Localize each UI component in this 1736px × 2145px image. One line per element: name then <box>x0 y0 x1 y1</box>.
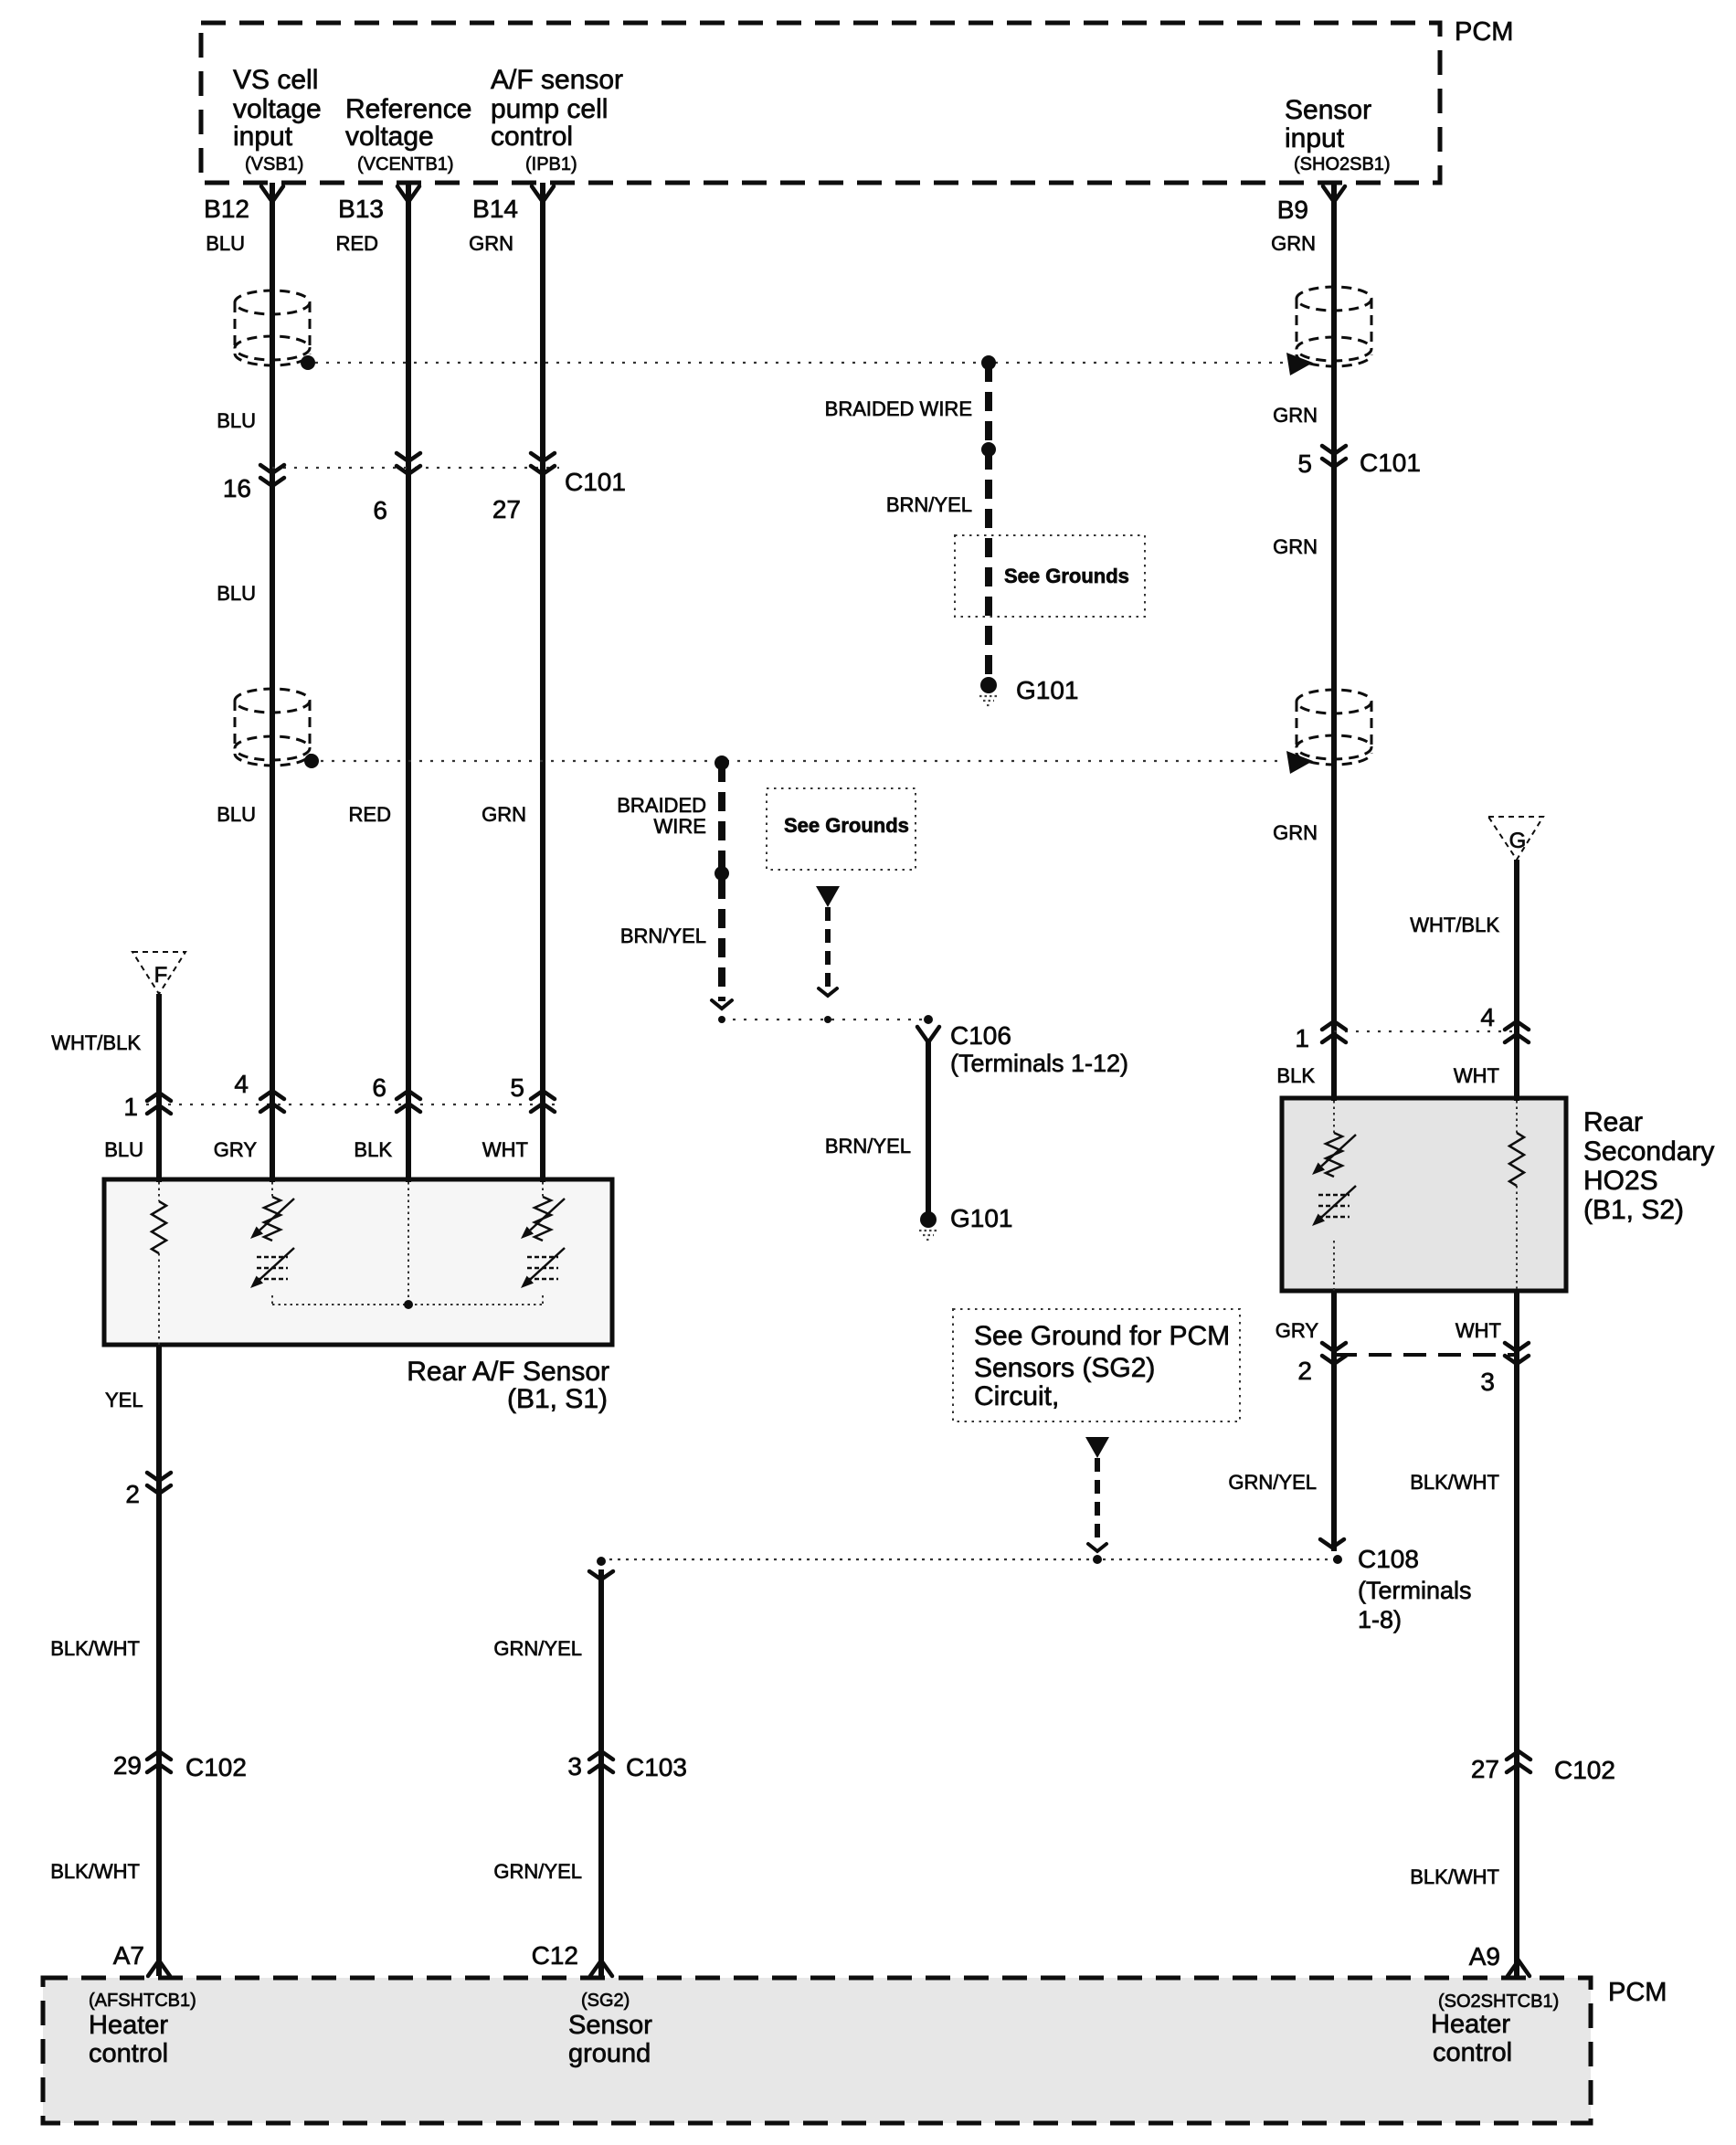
svg-text:voltage: voltage <box>345 122 434 152</box>
svg-text:GRN: GRN <box>1271 232 1316 255</box>
svg-text:4: 4 <box>1480 1003 1495 1031</box>
svg-text:pump cell: pump cell <box>491 94 608 124</box>
svg-text:(Terminals 1-12): (Terminals 1-12) <box>950 1050 1128 1077</box>
svg-text:C102: C102 <box>185 1753 247 1781</box>
svg-text:G101: G101 <box>1016 676 1079 704</box>
svg-text:GRN: GRN <box>1273 821 1318 844</box>
svg-text:(SG2): (SG2) <box>581 1991 630 2011</box>
svg-text:BLK/WHT: BLK/WHT <box>50 1860 140 1883</box>
svg-text:C108: C108 <box>1358 1545 1419 1573</box>
svg-text:input: input <box>1285 123 1345 153</box>
svg-text:B9: B9 <box>1277 195 1308 224</box>
svg-text:5: 5 <box>510 1073 524 1102</box>
svg-text:PCM: PCM <box>1455 17 1513 47</box>
svg-text:control: control <box>89 2039 168 2068</box>
svg-text:YEL: YEL <box>105 1389 143 1411</box>
svg-text:GRN/YEL: GRN/YEL <box>493 1637 582 1660</box>
svg-text:B13: B13 <box>338 195 384 223</box>
svg-text:BLK: BLK <box>1276 1064 1315 1087</box>
svg-text:(VSB1): (VSB1) <box>245 154 303 174</box>
svg-text:27: 27 <box>492 495 521 523</box>
svg-text:See Ground for PCM: See Ground for PCM <box>974 1321 1230 1351</box>
svg-text:C102: C102 <box>1554 1756 1615 1784</box>
svg-text:WHT: WHT <box>482 1138 528 1161</box>
svg-text:BLU: BLU <box>217 409 256 432</box>
svg-text:Sensor: Sensor <box>568 2011 652 2040</box>
svg-text:(IPB1): (IPB1) <box>525 154 577 174</box>
svg-text:BLK/WHT: BLK/WHT <box>1410 1471 1499 1494</box>
svg-text:See Grounds: See Grounds <box>784 814 909 837</box>
svg-text:PCM: PCM <box>1608 1978 1667 2007</box>
svg-text:1: 1 <box>123 1093 138 1121</box>
svg-text:BLK: BLK <box>354 1138 392 1161</box>
svg-text:BLU: BLU <box>104 1138 143 1161</box>
svg-text:B14: B14 <box>472 195 518 223</box>
svg-text:BLU: BLU <box>217 582 256 605</box>
svg-text:BLK/WHT: BLK/WHT <box>50 1637 140 1660</box>
svg-text:3: 3 <box>567 1752 582 1780</box>
svg-text:control: control <box>491 122 573 152</box>
svg-text:RED: RED <box>336 232 378 255</box>
svg-text:BRN/YEL: BRN/YEL <box>886 493 972 516</box>
svg-text:WHT: WHT <box>1455 1319 1501 1342</box>
svg-text:Sensors (SG2): Sensors (SG2) <box>974 1353 1155 1383</box>
svg-text:C101: C101 <box>1360 449 1421 477</box>
svg-text:ground: ground <box>568 2039 651 2068</box>
svg-text:control: control <box>1433 2038 1512 2067</box>
svg-text:BLU: BLU <box>206 232 245 255</box>
svg-text:VS cell: VS cell <box>233 65 318 95</box>
svg-text:C12: C12 <box>532 1941 578 1970</box>
svg-text:GRN: GRN <box>1273 535 1318 558</box>
svg-text:BRAIDED: BRAIDED <box>617 794 706 817</box>
svg-text:GRN/YEL: GRN/YEL <box>1228 1471 1317 1494</box>
svg-text:BLU: BLU <box>217 803 256 826</box>
svg-text:2: 2 <box>125 1480 140 1508</box>
svg-text:2: 2 <box>1297 1357 1312 1385</box>
svg-text:(Terminals: (Terminals <box>1358 1577 1472 1604</box>
svg-text:GRN: GRN <box>1273 404 1318 427</box>
svg-text:BRAIDED WIRE: BRAIDED WIRE <box>825 397 972 420</box>
svg-text:A7: A7 <box>113 1941 144 1970</box>
svg-text:WHT: WHT <box>1454 1064 1499 1087</box>
svg-text:Secondary: Secondary <box>1583 1136 1714 1167</box>
svg-text:Heater: Heater <box>89 2011 168 2040</box>
svg-text:BLK/WHT: BLK/WHT <box>1410 1865 1499 1888</box>
svg-text:1: 1 <box>1295 1024 1309 1052</box>
svg-text:C106: C106 <box>950 1021 1011 1050</box>
svg-text:WHT/BLK: WHT/BLK <box>1410 914 1499 936</box>
svg-text:BRN/YEL: BRN/YEL <box>825 1135 911 1157</box>
svg-text:(VCENTB1): (VCENTB1) <box>357 154 454 174</box>
svg-text:1-8): 1-8) <box>1358 1606 1402 1633</box>
svg-text:B12: B12 <box>204 195 249 223</box>
svg-text:G101: G101 <box>950 1204 1013 1232</box>
svg-text:3: 3 <box>1480 1368 1495 1396</box>
svg-text:WIRE: WIRE <box>654 815 706 838</box>
svg-text:See Grounds: See Grounds <box>1004 565 1129 587</box>
svg-text:Rear: Rear <box>1583 1107 1643 1137</box>
svg-text:F: F <box>154 963 168 988</box>
svg-text:HO2S: HO2S <box>1583 1166 1658 1196</box>
svg-text:voltage: voltage <box>233 94 322 124</box>
svg-text:Heater: Heater <box>1431 2010 1510 2039</box>
svg-text:6: 6 <box>372 1073 386 1102</box>
svg-text:G: G <box>1509 829 1527 853</box>
svg-text:Rear A/F Sensor: Rear A/F Sensor <box>407 1357 609 1387</box>
svg-text:GRN: GRN <box>469 232 513 255</box>
svg-text:(SHO2SB1): (SHO2SB1) <box>1294 154 1391 174</box>
svg-text:GRN: GRN <box>482 803 526 826</box>
svg-text:GRY: GRY <box>1276 1319 1319 1342</box>
svg-text:RED: RED <box>349 803 391 826</box>
svg-text:27: 27 <box>1471 1755 1499 1783</box>
svg-text:BRN/YEL: BRN/YEL <box>620 925 706 947</box>
svg-text:GRN/YEL: GRN/YEL <box>493 1860 582 1883</box>
svg-text:A/F sensor: A/F sensor <box>491 65 623 95</box>
svg-text:Circuit,: Circuit, <box>974 1381 1059 1411</box>
svg-text:A9: A9 <box>1469 1942 1500 1971</box>
svg-text:Sensor: Sensor <box>1285 95 1371 125</box>
svg-text:5: 5 <box>1297 449 1312 478</box>
svg-text:input: input <box>233 122 293 152</box>
svg-text:6: 6 <box>373 496 387 524</box>
svg-text:(AFSHTCB1): (AFSHTCB1) <box>89 1991 196 2011</box>
svg-text:16: 16 <box>223 474 251 502</box>
svg-text:C103: C103 <box>626 1753 687 1781</box>
svg-text:GRY: GRY <box>214 1138 258 1161</box>
svg-text:WHT/BLK: WHT/BLK <box>51 1031 141 1054</box>
svg-text:4: 4 <box>234 1070 249 1098</box>
svg-text:(B1, S1): (B1, S1) <box>507 1384 608 1414</box>
svg-text:C101: C101 <box>565 468 626 496</box>
svg-text:(B1, S2): (B1, S2) <box>1583 1195 1684 1225</box>
svg-text:29: 29 <box>113 1751 142 1780</box>
svg-text:(SO2SHTCB1): (SO2SHTCB1) <box>1438 1992 1559 2012</box>
svg-text:Reference: Reference <box>345 94 471 124</box>
